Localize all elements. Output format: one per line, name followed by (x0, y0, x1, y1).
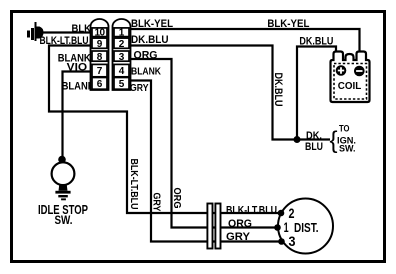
pin 2 (114, 38, 129, 50)
distributor (278, 199, 333, 254)
svg-text:SW.: SW. (339, 144, 356, 155)
svg-text:BLK-YEL: BLK-YEL (131, 18, 173, 30)
svg-text:2: 2 (289, 205, 295, 221)
svg-text:GRY: GRY (151, 193, 163, 212)
svg-text:BLK-YEL: BLK-YEL (267, 18, 309, 30)
svg-text:DIST.: DIST. (294, 221, 319, 235)
coil minus terminal (354, 66, 365, 77)
svg-text:10: 10 (94, 28, 105, 39)
svg-text:ORG: ORG (134, 49, 158, 61)
svg-text:BLANK: BLANK (58, 53, 91, 65)
junction node DK.BLU (294, 136, 301, 143)
svg-text:5: 5 (119, 79, 125, 90)
wire ORG (pin 3 to distributor terminal 1) (129, 49, 278, 230)
svg-text:ORG: ORG (171, 188, 183, 209)
svg-text:BLK-LT.BLU: BLK-LT.BLU (128, 159, 140, 210)
svg-text:1: 1 (119, 28, 125, 39)
svg-text:BLK-LT.BLU: BLK-LT.BLU (40, 35, 89, 47)
svg-text:BLANK: BLANK (131, 66, 161, 78)
pin 8 (92, 51, 107, 63)
wire BLK-LT.BLU (pin 9 to distributor terminal 2) (40, 35, 282, 216)
svg-text:COIL: COIL (338, 80, 362, 92)
wire VIO (pin 7 to idle stop switch) (63, 62, 92, 157)
svg-text:BLK-LT.BLU: BLK-LT.BLU (226, 204, 277, 216)
pin 4 (114, 64, 129, 77)
svg-text:6: 6 (97, 79, 103, 90)
distributor terminal 2 (278, 205, 295, 221)
svg-text:3: 3 (119, 52, 125, 63)
pin 1 (114, 28, 129, 39)
wire DK.BLU (pin 2 to coil plus terminal) (130, 34, 336, 140)
pin 5 (114, 78, 129, 91)
svg-text:TO: TO (339, 124, 350, 135)
svg-text:DK.BLU: DK.BLU (131, 34, 169, 46)
wire BLK-YEL (pin 1 to coil minus terminal) (130, 18, 360, 52)
svg-text:3: 3 (289, 233, 296, 249)
wire GRY (pin 5 to distributor terminal 3) (129, 81, 282, 243)
distributor terminal 1 (274, 219, 289, 235)
pin 7 (92, 64, 107, 77)
svg-text:BLU: BLU (305, 141, 323, 153)
ignition coil (331, 52, 370, 103)
pin 3 (114, 51, 129, 63)
svg-text:GRY: GRY (130, 82, 149, 94)
inline connector (double bar) (207, 204, 220, 249)
svg-text:2: 2 (119, 39, 125, 50)
svg-text:4: 4 (119, 66, 125, 77)
idle stop switch (38, 156, 88, 227)
connector strip right outline (pins 1-5) (113, 19, 131, 90)
bulkhead connector symbol (27, 22, 44, 41)
svg-text:SW.: SW. (55, 215, 73, 227)
svg-text:8: 8 (97, 52, 103, 63)
connector strip left outline (pins 10-6) (91, 19, 109, 90)
svg-text:BLK: BLK (72, 23, 92, 35)
pin 10 (92, 28, 107, 39)
svg-text:7: 7 (97, 66, 103, 77)
pin 6 (92, 78, 107, 91)
wire DK.BLU tap to ignition switch (297, 124, 356, 155)
svg-text:ORG: ORG (228, 218, 252, 230)
distributor terminal 3 (278, 233, 295, 249)
wire BLK (bulkhead to pin 10) (43, 23, 91, 35)
svg-text:GRY: GRY (226, 231, 251, 243)
svg-text:DK.BLU: DK.BLU (272, 73, 284, 107)
svg-text:9: 9 (97, 39, 103, 50)
coil plus terminal (336, 65, 347, 76)
pin 9 (92, 38, 107, 50)
svg-text:DK.BLU: DK.BLU (299, 36, 333, 48)
